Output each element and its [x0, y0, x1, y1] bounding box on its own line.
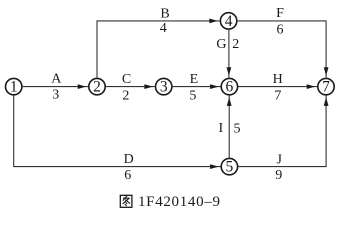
- svg-text:4: 4: [225, 13, 233, 30]
- svg-text:3: 3: [52, 88, 59, 103]
- svg-text:C: C: [122, 72, 131, 87]
- svg-text:5: 5: [234, 122, 241, 137]
- svg-text:9: 9: [275, 168, 282, 183]
- svg-text:2: 2: [232, 37, 239, 52]
- svg-text:2: 2: [93, 79, 101, 96]
- svg-text:1: 1: [10, 79, 18, 96]
- svg-text:B: B: [160, 6, 169, 21]
- svg-text:7: 7: [274, 89, 281, 104]
- svg-text:I: I: [218, 121, 223, 136]
- svg-text:D: D: [124, 152, 134, 167]
- svg-text:A: A: [51, 71, 62, 86]
- svg-text:2: 2: [122, 88, 129, 103]
- svg-text:3: 3: [160, 79, 168, 96]
- svg-text:4: 4: [160, 21, 167, 36]
- svg-text:7: 7: [322, 79, 330, 96]
- svg-text:H: H: [273, 72, 283, 87]
- svg-text:6: 6: [277, 23, 284, 38]
- svg-text:6: 6: [226, 79, 234, 96]
- svg-text:5: 5: [226, 159, 234, 176]
- svg-text:G: G: [216, 37, 226, 52]
- svg-text:F: F: [276, 6, 284, 21]
- svg-text:1F420140–9: 1F420140–9: [138, 194, 221, 210]
- svg-text:6: 6: [124, 168, 131, 183]
- svg-text:5: 5: [189, 89, 196, 104]
- svg-text:E: E: [190, 72, 199, 87]
- svg-text:J: J: [276, 152, 282, 167]
